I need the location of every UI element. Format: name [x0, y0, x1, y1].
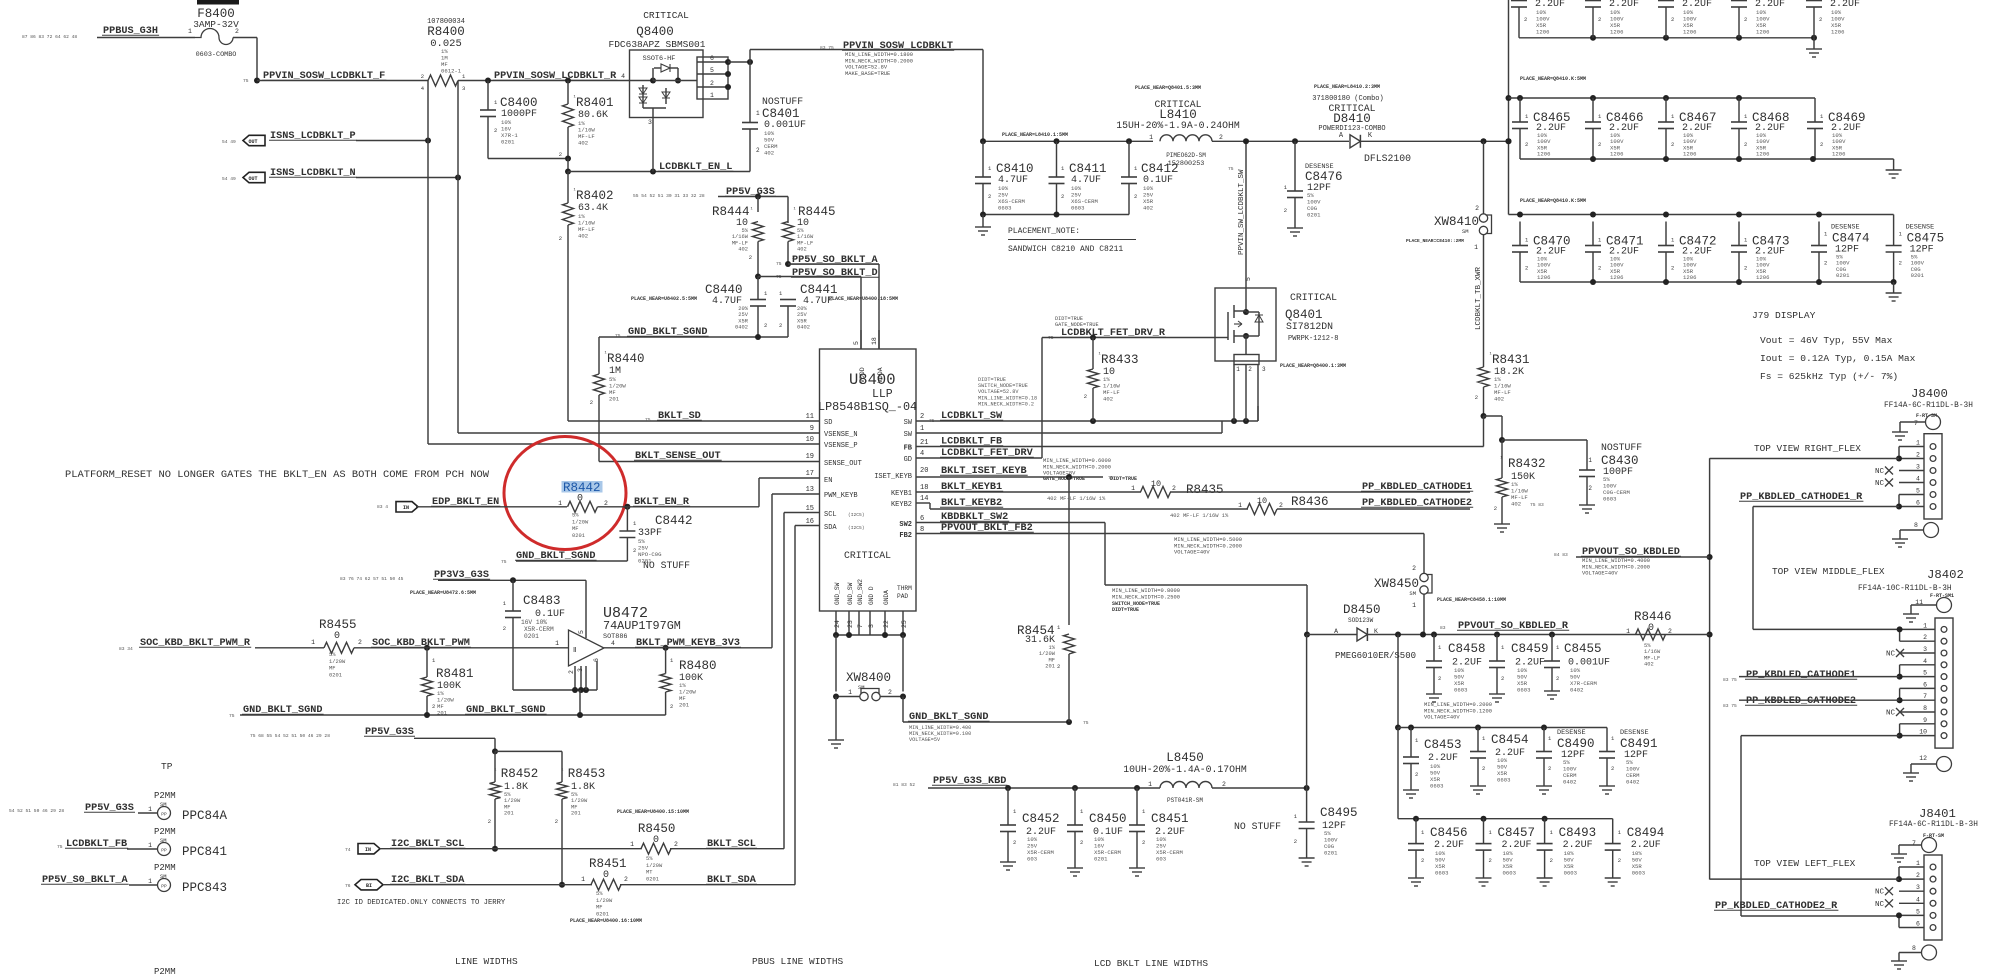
connector J8400 pad7 top	[1900, 415, 1941, 433]
svg-text:3: 3	[462, 85, 465, 92]
wire R8400 to R net	[458, 80, 488, 82]
svg-text:402: 402	[1644, 662, 1654, 668]
svg-text:FDC638APZ SBMS001: FDC638APZ SBMS001	[609, 39, 706, 50]
svg-text:2: 2	[1819, 16, 1822, 23]
svg-text:5%: 5%	[797, 228, 804, 234]
svg-text:P2MM: P2MM	[154, 791, 176, 801]
svg-text:C8440: C8440	[705, 283, 743, 297]
resistor R8450	[630, 822, 678, 882]
svg-text:MIN_LINE_WIDTH=0.6000: MIN_LINE_WIDTH=0.6000	[1043, 458, 1111, 464]
capacitor C8411	[1049, 141, 1107, 214]
svg-text:(I2C5): (I2C5)	[848, 512, 865, 518]
svg-text:C8451: C8451	[1151, 812, 1189, 826]
svg-text:MF: MF	[504, 804, 510, 810]
wire PP5V_SO_BKLT_A	[785, 261, 879, 349]
svg-text:PWRPK-1212-8: PWRPK-1212-8	[1288, 335, 1338, 343]
svg-text:76: 76	[345, 883, 351, 889]
svg-text:C8442: C8442	[655, 514, 693, 528]
svg-text:1: 1	[848, 689, 852, 696]
svg-text:FF14A-6C-R11DL-B-3H: FF14A-6C-R11DL-B-3H	[1884, 402, 1973, 410]
transistor Q8400 internals	[630, 64, 682, 118]
svg-text:2: 2	[1061, 193, 1064, 200]
svg-text:PWM_KEYB: PWM_KEYB	[824, 492, 858, 500]
wire PP_KBDLED_CATHODE1 stub	[1170, 491, 1470, 493]
wire J8401 pin1-2 tie	[1896, 867, 1902, 882]
svg-text:PLACE_NEAR=Q8410.K:5MM: PLACE_NEAR=Q8410.K:5MM	[1520, 198, 1586, 204]
resistor R8440	[590, 337, 645, 462]
svg-text:R8440: R8440	[607, 352, 645, 366]
svg-text:DIDT=TRUE: DIDT=TRUE	[1112, 607, 1139, 613]
label NO STUFF C8495	[1234, 821, 1281, 832]
svg-text:2: 2	[710, 80, 714, 87]
svg-text:TP: TP	[161, 761, 173, 772]
svg-text:2: 2	[1598, 265, 1601, 272]
wire fuse to corner	[233, 38, 257, 81]
svg-text:PIMEO62D-SM: PIMEO62D-SM	[1166, 152, 1206, 159]
net TOP VIEW RIGHT_FLEX wire	[1710, 458, 1899, 460]
wire R8431 to FB	[1484, 416, 1506, 447]
svg-text:3AMP-32V: 3AMP-32V	[193, 19, 239, 30]
ground row3	[1886, 282, 1902, 301]
svg-text:1206: 1206	[1537, 274, 1550, 281]
svg-text:0603: 0603	[1564, 870, 1577, 877]
svg-text:2: 2	[1556, 675, 1559, 682]
wire BKLT_KEYB1	[916, 491, 1141, 493]
svg-text:MF: MF	[329, 666, 335, 672]
svg-text:5%: 5%	[646, 856, 653, 862]
note PLATFORM_RESET	[65, 469, 490, 481]
svg-text:SSOT6-HF: SSOT6-HF	[643, 55, 676, 63]
net label PPVOUT_SO_KBDLED_R	[1440, 621, 1569, 632]
net label PPVOUT_SO_KBDLED	[1554, 547, 1681, 577]
svg-text:1: 1	[581, 876, 585, 883]
svg-text:2: 2	[1598, 141, 1601, 148]
svg-text:Fs = 625kHz Typ (+/- 7%): Fs = 625kHz Typ (+/- 7%)	[1760, 371, 1898, 382]
net label GND_BKLT_SGND 2	[908, 712, 990, 743]
label PLACEMENT_NOTE	[1008, 227, 1136, 254]
net label I2C_BKLT_SDA	[390, 875, 465, 886]
svg-text:2: 2	[1611, 765, 1614, 772]
transistor Q8401 internals	[1215, 288, 1263, 355]
svg-text:6: 6	[1916, 500, 1920, 507]
inductor L8450	[1123, 751, 1247, 804]
ground R8432	[1494, 524, 1510, 532]
svg-text:83 76 74 62 57 51 50 45: 83 76 74 62 57 51 50 45	[340, 576, 404, 582]
svg-text:0201: 0201	[1324, 850, 1338, 857]
svg-text:C8493: C8493	[1559, 826, 1597, 840]
svg-text:0402: 0402	[1570, 687, 1583, 694]
svg-text:X5R-CERM: X5R-CERM	[524, 626, 554, 633]
svg-text:2: 2	[1671, 16, 1674, 23]
svg-text:TOP VIEW MIDDLE_FLEX: TOP VIEW MIDDLE_FLEX	[1772, 566, 1885, 577]
svg-text:2: 2	[1550, 857, 1553, 864]
svg-text:MIN_LINE_WIDTH=0.4000: MIN_LINE_WIDTH=0.4000	[1582, 558, 1650, 564]
ground C8490	[1536, 786, 1552, 794]
svg-text:7: 7	[857, 624, 864, 628]
wire GND_BKLT_SGND 1	[599, 334, 788, 340]
wire D8450 to L8450 vertical	[1306, 635, 1308, 789]
wire C8400 R8401 bottom	[488, 156, 571, 172]
net label BKLT_SD	[645, 411, 702, 423]
in flag I2C_BKLT_SCL	[345, 844, 380, 854]
svg-text:2: 2	[1548, 765, 1551, 772]
svg-text:1206: 1206	[1756, 29, 1769, 36]
svg-text:¹: ¹	[793, 206, 796, 213]
capacitor C8430 NOSTUFF	[1579, 442, 1642, 505]
net label PPVIN_SOSW_LCDBKLT	[820, 41, 954, 77]
svg-text:1: 1	[1916, 440, 1920, 447]
svg-text:1: 1	[920, 425, 924, 433]
ground C8493	[1537, 878, 1553, 886]
svg-text:R8446: R8446	[1634, 610, 1672, 624]
ground C8453	[1403, 790, 1419, 798]
transistor Q8400 pin3	[648, 118, 653, 172]
svg-text:1/20W: 1/20W	[572, 519, 589, 525]
svg-text:OUT: OUT	[248, 139, 257, 145]
svg-text:GNDA: GNDA	[883, 590, 890, 605]
junction PPVIN_SOSW_LCDBKLT_F	[254, 78, 260, 84]
svg-text:83 34: 83 34	[119, 646, 133, 652]
svg-text:2: 2	[590, 399, 593, 406]
svg-text:PLACE_NEAR=U8400.16:10MM: PLACE_NEAR=U8400.16:10MM	[570, 918, 642, 924]
net label PPVIN_SOSW_LCDBKLT_F	[243, 71, 386, 84]
svg-text:2: 2	[988, 193, 991, 200]
svg-text:1: 1	[630, 841, 634, 848]
svg-text:0603: 0603	[1435, 870, 1448, 877]
svg-text:1: 1	[311, 639, 315, 646]
ground C8430	[1579, 505, 1595, 513]
wire cap bank3 bus	[1398, 728, 1613, 844]
svg-text:BI: BI	[366, 883, 372, 889]
svg-text:DIDT=TRUE: DIDT=TRUE	[1055, 316, 1083, 322]
capacitor C8493	[1537, 819, 1597, 878]
label TOP VIEW LEFT_FLEX	[1754, 858, 1856, 869]
net label BKLT_KEYB2	[940, 498, 1229, 519]
svg-text:VOLTAGE=40V: VOLTAGE=40V	[1424, 715, 1460, 721]
capacitor C8474	[1811, 222, 1870, 283]
svg-text:8: 8	[1923, 705, 1927, 712]
capacitor C8468	[1731, 98, 1790, 159]
svg-text:1/20W: 1/20W	[329, 659, 346, 665]
ground J8402 pad12	[1903, 773, 1919, 781]
svg-text:2: 2	[1671, 141, 1674, 148]
svg-text:R8450: R8450	[638, 822, 676, 836]
svg-text:1206: 1206	[1610, 29, 1623, 36]
svg-text:1: 1	[1149, 134, 1153, 141]
svg-text:SCL: SCL	[824, 511, 837, 519]
capacitor C8495	[1294, 788, 1358, 858]
svg-text:R8445: R8445	[798, 205, 836, 219]
capacitor C8475	[1886, 224, 1945, 283]
svg-text:C8452: C8452	[1022, 812, 1060, 826]
net label PP5V_G3S_KBD	[893, 776, 1007, 788]
nc J8400 pin3	[1875, 467, 1893, 477]
svg-text:1: 1	[756, 110, 760, 117]
svg-text:DESENSE: DESENSE	[1906, 224, 1935, 232]
svg-text:C8491: C8491	[1620, 737, 1658, 751]
svg-text:25V: 25V	[738, 312, 748, 318]
capacitor row1-5	[1806, 0, 1860, 38]
wire L8410 feed	[980, 138, 1153, 144]
ground C8458	[1426, 694, 1442, 702]
net label PPVIN_SOSW_LCDBKLT_R	[493, 71, 617, 82]
svg-text:10: 10	[1257, 496, 1267, 506]
svg-text:402: 402	[1143, 205, 1153, 212]
svg-text:PP: PP	[161, 884, 167, 890]
svg-text:MIN_NECK_WIDTH=0.1200: MIN_NECK_WIDTH=0.1200	[1424, 708, 1492, 714]
svg-text:1206: 1206	[1536, 29, 1549, 36]
buffer U8472 labels	[603, 605, 681, 641]
capacitor C8400	[480, 81, 538, 159]
capacitor row1-3	[1658, 0, 1712, 38]
svg-text:NOSTUFF: NOSTUFF	[1601, 442, 1642, 453]
svg-text:2: 2	[1824, 260, 1827, 267]
svg-text:R8436: R8436	[1291, 495, 1329, 509]
svg-text:SOD123W: SOD123W	[1348, 617, 1374, 624]
resistor R8480	[660, 648, 716, 715]
label PLACE_NEAR U8400.16	[570, 918, 642, 924]
svg-text:0603-COMBO: 0603-COMBO	[196, 51, 237, 59]
svg-text:12: 12	[1919, 755, 1927, 762]
wire PP5V_G3S lower	[414, 738, 562, 754]
resistor R8445	[783, 205, 836, 264]
svg-text:J8402: J8402	[1927, 568, 1964, 582]
jumper XW8450	[1374, 534, 1506, 635]
svg-text:2: 2	[358, 639, 362, 646]
IC U8400 right tiny attrs	[978, 377, 1037, 407]
junction LCDBKLT_EN_L	[565, 169, 571, 175]
connector J8402 labels	[1858, 568, 1964, 599]
svg-text:8: 8	[1914, 522, 1918, 529]
out flag ISNS_LCDBKLT_P	[222, 135, 265, 145]
svg-text:2: 2	[888, 689, 892, 696]
transistor Q8400 body	[621, 50, 703, 118]
junction C8400 top	[485, 78, 491, 84]
svg-text:5%: 5%	[596, 891, 603, 897]
svg-text:2: 2	[1013, 839, 1016, 846]
svg-text:9: 9	[1923, 717, 1927, 724]
ground C8450	[1067, 868, 1083, 876]
wire PP_KBDLED_CATHODE1 b	[1739, 676, 1900, 678]
svg-text:5%: 5%	[572, 513, 579, 519]
nc J8402 pin8	[1886, 708, 1904, 718]
svg-text:MF: MF	[571, 804, 577, 810]
svg-text:C8476: C8476	[1305, 170, 1343, 184]
IC U8400 right pin names	[874, 419, 913, 540]
wire J8402 pin9-10 tie	[1897, 724, 1903, 739]
net label SOC_KBD_BKLT_PWM	[371, 638, 471, 649]
svg-text:DIDT=TRUE: DIDT=TRUE	[1110, 476, 1137, 482]
svg-text:VOLTAGE=40V: VOLTAGE=40V	[1174, 550, 1210, 556]
nc J8402 pin3	[1886, 649, 1904, 659]
svg-text:R8453: R8453	[568, 767, 606, 781]
capacitor C8459	[1489, 635, 1549, 695]
svg-text:2: 2	[432, 703, 435, 710]
wire GND_BKLT_SGND 4	[240, 712, 666, 718]
svg-text:NC: NC	[1886, 710, 1896, 718]
svg-text:GD: GD	[904, 456, 912, 464]
resistor R8402	[559, 172, 614, 422]
svg-text:MF: MF	[1049, 657, 1055, 663]
svg-text:C8411: C8411	[1069, 162, 1107, 176]
capacitor C8452	[1000, 788, 1060, 863]
svg-text:2: 2	[1598, 16, 1601, 23]
net label PP_KBDLED_CATHODE1 a	[1361, 482, 1473, 493]
svg-text:1206: 1206	[1610, 151, 1623, 158]
svg-text:1/16W: 1/16W	[1644, 649, 1661, 655]
capacitor C8476	[1284, 141, 1343, 225]
svg-text:6: 6	[710, 55, 714, 62]
ground row2	[1886, 159, 1902, 178]
svg-text:MIN_NECK_WIDTH=0.2: MIN_NECK_WIDTH=0.2	[978, 401, 1034, 407]
ground J8400 pad8	[1892, 539, 1908, 547]
svg-text:83: 83	[1440, 625, 1446, 631]
capacitor C8451	[1129, 788, 1189, 868]
svg-text:R8400: R8400	[427, 25, 465, 39]
wire BKLT_SCL	[670, 513, 820, 849]
wire BKLT_EN_R	[598, 478, 821, 510]
connector J8402 pad12	[1911, 755, 1952, 773]
connector J8401 pin stubs	[1899, 860, 1924, 928]
capacitor C8440	[705, 277, 768, 338]
svg-text:2: 2	[756, 147, 760, 154]
ground C8452	[1000, 862, 1016, 870]
svg-text:PMEG6010ER/S500: PMEG6010ER/S500	[1335, 651, 1416, 661]
svg-text:CRITICAL: CRITICAL	[643, 10, 689, 21]
svg-text:402: 402	[1494, 396, 1504, 403]
wire J8402 pin6-7 tie	[1897, 688, 1903, 703]
svg-text:5: 5	[853, 341, 860, 345]
svg-text:201: 201	[504, 811, 514, 817]
svg-text:402: 402	[1511, 501, 1521, 508]
svg-text:PLACE_NEAR=Q8410.K:5MM: PLACE_NEAR=Q8410.K:5MM	[1520, 76, 1586, 82]
svg-text:25V: 25V	[797, 312, 807, 318]
svg-text:2: 2	[1438, 675, 1441, 682]
svg-text:Q8400: Q8400	[636, 25, 674, 39]
svg-text:R8431: R8431	[1492, 353, 1530, 367]
svg-text:4: 4	[920, 450, 924, 458]
svg-text:1206: 1206	[1683, 151, 1696, 158]
svg-text:402 MF-LF 1/16W 1%: 402 MF-LF 1/16W 1%	[1047, 496, 1106, 502]
svg-text:1/16W: 1/16W	[732, 234, 749, 240]
label LCD BKLT LINE WIDTHS	[1094, 958, 1208, 969]
svg-text:24: 24	[834, 620, 841, 628]
svg-text:LCD BKLT LINE WIDTHS: LCD BKLT LINE WIDTHS	[1094, 958, 1208, 969]
svg-text:2: 2	[555, 818, 558, 825]
net label BKLT_SENSE_OUT	[634, 451, 722, 462]
svg-text:402: 402	[1103, 396, 1113, 403]
ground C8476	[1287, 225, 1303, 236]
capacitor C8467	[1658, 98, 1717, 159]
svg-text:1: 1	[1923, 622, 1927, 629]
svg-text:R8481: R8481	[436, 667, 474, 681]
label cap bank2 attrs	[1424, 702, 1492, 721]
svg-text:U8400: U8400	[849, 371, 896, 389]
svg-text:371800180 (Combo): 371800180 (Combo)	[1312, 95, 1383, 103]
svg-text:SM: SM	[1462, 228, 1469, 235]
IC U8400 left pin numbers	[806, 413, 814, 526]
wire cap bank2 bus	[1395, 635, 1607, 752]
svg-text:2: 2	[1489, 857, 1492, 864]
svg-text:1: 1	[1474, 244, 1478, 251]
label PLACE_NEAR row3	[1520, 198, 1586, 204]
svg-text:LCDBKLT_TB_XWR: LCDBKLT_TB_XWR	[1475, 266, 1483, 330]
svg-text:SW2: SW2	[899, 521, 912, 529]
net label ISNS_LCDBKLT_N	[269, 168, 357, 179]
svg-text:81 83 52: 81 83 52	[893, 782, 915, 788]
svg-text:KEYB2: KEYB2	[891, 501, 912, 509]
connector J8401 body	[1924, 855, 1942, 940]
svg-text:DESENSE: DESENSE	[1557, 729, 1586, 737]
svg-text:L8450: L8450	[1166, 751, 1204, 765]
svg-text:MIN_NECK_WIDTH=0.2000: MIN_NECK_WIDTH=0.2000	[845, 58, 913, 64]
buffer U8472 triangle	[568, 630, 604, 674]
svg-text:MIN_NECK_WIDTH=0.100: MIN_NECK_WIDTH=0.100	[909, 731, 971, 737]
svg-text:R8455: R8455	[319, 618, 357, 632]
svg-text:R8402: R8402	[576, 189, 614, 203]
svg-text:1: 1	[148, 842, 152, 849]
svg-text:2: 2	[1482, 765, 1485, 772]
ground C8454	[1470, 786, 1486, 794]
svg-text:PLACE_NEAR=C8458.1:10MM: PLACE_NEAR=C8458.1:10MM	[1437, 597, 1506, 603]
svg-text:SANDWICH C8210 AND C8211: SANDWICH C8210 AND C8211	[1008, 245, 1123, 254]
net label BKLT_EN_R	[633, 497, 690, 508]
svg-text:DFLS2100: DFLS2100	[1364, 153, 1411, 164]
svg-text:54 52 51 50 46 29 28: 54 52 51 50 46 29 28	[9, 808, 64, 814]
svg-text:2: 2	[494, 127, 497, 134]
svg-text:FB: FB	[904, 445, 913, 453]
svg-text:0603: 0603	[1071, 205, 1084, 212]
wire PPVIN_SOSW_LCDBKLT_F	[257, 80, 428, 82]
svg-text:19: 19	[806, 453, 814, 461]
wire PP5V_G3S_KBD	[928, 785, 1160, 791]
capacitor row1-2	[1585, 0, 1639, 38]
svg-text:6: 6	[1923, 681, 1927, 688]
capacitor C8410	[975, 141, 1034, 214]
svg-text:0201: 0201	[572, 533, 585, 539]
svg-text:CRITICAL: CRITICAL	[1290, 292, 1337, 303]
svg-text:0612-1: 0612-1	[441, 68, 462, 75]
ground J8402 pad11	[1903, 614, 1919, 622]
svg-text:4: 4	[1916, 476, 1920, 483]
svg-text:603: 603	[1027, 856, 1037, 863]
svg-text:0201: 0201	[524, 633, 539, 640]
svg-text:VDDD: VDDD	[859, 367, 866, 383]
svg-text:20: 20	[920, 467, 928, 475]
svg-text:11: 11	[806, 413, 814, 421]
svg-text:75: 75	[776, 261, 782, 267]
vertical feed top right	[1506, 0, 1512, 215]
svg-text:2: 2	[1668, 628, 1672, 635]
label PLACE_NEAR row2	[1520, 76, 1586, 82]
svg-text:GND_SW: GND_SW	[834, 582, 841, 605]
svg-text:0402: 0402	[797, 325, 810, 331]
wire PPVIN_SOSW_LCDBKLT	[750, 50, 983, 142]
ground J8401 pad8	[1891, 961, 1907, 969]
svg-text:2: 2	[1744, 141, 1747, 148]
svg-text:1: 1	[148, 806, 152, 813]
capacitor C8483	[503, 580, 565, 690]
svg-text:MIN_LINE_WIDTH=0.18: MIN_LINE_WIDTH=0.18	[978, 395, 1037, 401]
label PBUS LINE WIDTHS	[752, 956, 844, 967]
capacitor C8456	[1408, 819, 1468, 878]
wire PPVOUT_SO_KBDLED	[1576, 556, 1710, 558]
svg-text:18: 18	[871, 337, 878, 345]
svg-text:C8495: C8495	[1320, 806, 1358, 820]
svg-text:5%: 5%	[742, 228, 749, 234]
capacitor C8465	[1512, 98, 1571, 159]
svg-text:1: 1	[148, 878, 152, 885]
